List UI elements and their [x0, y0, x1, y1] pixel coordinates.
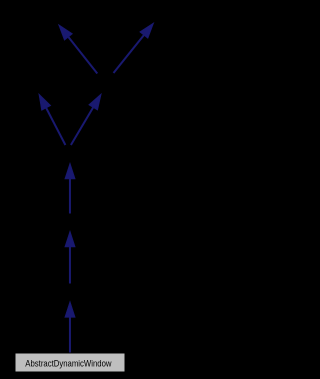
- edge node D to node F: [71, 94, 101, 145]
- edge node C to node D: [65, 163, 75, 214]
- edge node B to node C: [65, 231, 75, 284]
- node AbstractDynamicWindow box: [15, 353, 125, 372]
- edge AbstractDynamicWindow to node B: [65, 301, 75, 354]
- inheritance graph: [0, 0, 208, 379]
- edge node F to node G: [59, 25, 98, 74]
- svg-text:AbstractDynamicWindow: AbstractDynamicWindow: [25, 358, 111, 369]
- edge node D to node E: [39, 94, 66, 145]
- edge node F to node H: [114, 23, 154, 73]
